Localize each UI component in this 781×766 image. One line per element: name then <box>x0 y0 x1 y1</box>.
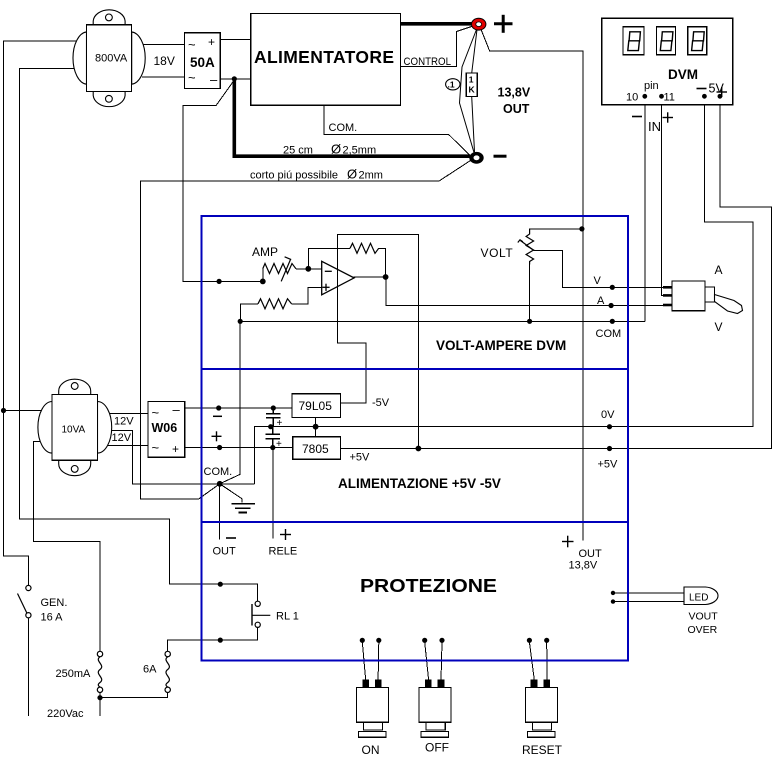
potentiometer VOLT <box>518 229 534 265</box>
wire COM node down to OUT minus terminal <box>219 484 221 540</box>
terminal RELE plus <box>280 529 291 540</box>
wire 50A plus output to ALIMENTATORE <box>220 38 250 40</box>
capacitor C2 <box>266 427 281 448</box>
wire 10VA center tap to COM node <box>103 431 255 484</box>
transformer 10VA <box>38 379 112 475</box>
junction dot relay wire entering box <box>218 582 223 587</box>
plus symbol at output <box>494 15 513 33</box>
wire 10VA primary bottom to fuse 250mA <box>33 441 100 651</box>
junction dot 50A minus output <box>232 76 237 81</box>
fuse 6A <box>165 651 170 692</box>
wire fuse 6A bottom to 220Vac junction <box>100 692 168 697</box>
svg-text:VOLT-AMPERE DVM: VOLT-AMPERE DVM <box>436 338 566 353</box>
svg-text:79L05: 79L05 <box>299 399 333 413</box>
svg-text:+: + <box>208 35 215 49</box>
junction dot mains rail at 10VA primary <box>1 408 6 413</box>
junction dot +5V output <box>607 446 612 451</box>
wire op-amp output down to A line <box>386 277 672 305</box>
svg-text:AMP: AMP <box>252 245 278 259</box>
wire thick plus from ALIMENTATORE to plus post <box>401 22 473 26</box>
svg-text:corto piú possibile: corto piú possibile <box>250 170 338 182</box>
wire COM node riser to measuring circuit <box>220 321 241 484</box>
svg-text:-5V: -5V <box>372 397 390 409</box>
label minus IN plus below DVM <box>632 116 642 118</box>
wire 0V rail bend down to COM node <box>255 96 753 484</box>
svg-text:–: – <box>210 72 218 87</box>
resistor feedback R2 <box>350 243 379 253</box>
svg-text:RESET: RESET <box>522 743 563 757</box>
svg-text:800VA: 800VA <box>95 53 128 65</box>
wire DVM pin11 to switch center tab <box>662 96 672 295</box>
svg-text:OFF: OFF <box>425 741 449 755</box>
wire +5V from 7805 output to DVM 5V+ pin <box>341 96 772 448</box>
svg-text:COM: COM <box>596 328 622 340</box>
wire feedback from minus input over resistor to output <box>308 248 350 268</box>
junction dot cap C2 bottom / RELE takeoff <box>270 445 275 450</box>
binding post minus (black) <box>469 152 483 164</box>
svg-text:PROTEZIONE: PROTEZIONE <box>360 575 497 596</box>
wire VOLT pot top to 13,8V line <box>530 229 582 231</box>
box ALIMENTAZIONE +5V -5V <box>202 369 629 522</box>
wire lower resistor to COM rail <box>240 304 258 322</box>
svg-text:ALIMENTAZIONE +5V -5V: ALIMENTAZIONE +5V -5V <box>338 476 501 491</box>
svg-text:~: ~ <box>188 37 196 52</box>
svg-text:+5V: +5V <box>598 459 619 471</box>
regulator 79L05 <box>292 394 341 418</box>
junction dot op-amp inverting input <box>305 266 311 272</box>
wire 18V secondary upper <box>142 44 184 46</box>
svg-text:IN: IN <box>648 119 661 134</box>
box VOLT-AMPERE DVM <box>202 216 629 369</box>
wire 18V secondary lower <box>142 76 184 78</box>
wire W06 plus rail to 7805 input <box>185 447 293 449</box>
pushbutton RESET <box>526 638 558 737</box>
relay RL1 contact <box>252 601 270 627</box>
svg-text:6A: 6A <box>143 664 157 676</box>
svg-text:+: + <box>277 418 283 429</box>
wire mains L from 800VA primary to GEN switch <box>4 41 77 586</box>
pin dots <box>642 94 647 99</box>
junction dot minus rail test point <box>216 405 221 410</box>
wire GEN switch to 220Vac terminal <box>27 618 29 716</box>
junction dot relay return wire <box>218 638 223 643</box>
svg-text:18V: 18V <box>154 54 175 68</box>
svg-text:0V: 0V <box>601 409 615 421</box>
svg-text:VOUT: VOUT <box>689 611 719 623</box>
svg-text:–: – <box>173 402 181 417</box>
resistor 1K between posts <box>472 30 477 74</box>
svg-text:2,5mm: 2,5mm <box>343 145 377 157</box>
wire COM measurement rail <box>240 320 645 322</box>
label minus 5V plus <box>697 88 707 90</box>
svg-text:11: 11 <box>664 92 675 104</box>
svg-text:GEN.: GEN. <box>41 597 68 609</box>
minus symbol at output <box>494 155 507 158</box>
svg-text:13,8V: 13,8V <box>498 86 531 100</box>
shunt .1 ohm on wire from plus to minus post <box>460 30 477 153</box>
wire shunt sense from 50A minus dot to AMP input <box>183 80 263 281</box>
wire 10VA secondary 12V upper to W06 <box>103 413 148 415</box>
svg-text:10VA: 10VA <box>62 425 86 436</box>
svg-text:DVM: DVM <box>668 67 698 82</box>
rectifier 50A <box>184 33 220 89</box>
svg-text:+: + <box>276 439 282 450</box>
wire RESET button terminals <box>529 642 534 680</box>
label plus polarity mark near W06 <box>212 431 222 441</box>
wire ON button terminals <box>362 642 365 680</box>
wire DVM pin10 to COM rail <box>644 96 646 321</box>
svg-text:13,8V: 13,8V <box>569 560 598 572</box>
junction dot VOLT pot bottom on COM rail <box>527 319 532 324</box>
junction dot +5V rail at op-amp riser <box>416 446 422 452</box>
svg-text:220Vac: 220Vac <box>47 708 84 720</box>
wire LED anode <box>615 592 684 594</box>
DVM module <box>602 18 733 104</box>
svg-text:V: V <box>594 275 602 287</box>
junction dot V line <box>610 285 615 290</box>
transformer 800VA <box>73 10 145 107</box>
seven segment digit 1 <box>623 27 644 55</box>
switch A/V toggle <box>663 281 743 314</box>
wire VOLT pot bottom to COM rail <box>529 265 531 322</box>
wire fuse 250mA bottom to 220Vac terminal <box>99 692 101 716</box>
seven segment digit 3 <box>688 27 707 55</box>
wire op-amp plus input to lower resistor <box>292 287 322 304</box>
pushbutton OFF <box>419 638 451 737</box>
svg-text:LED: LED <box>689 593 708 604</box>
fuse 250mA <box>97 651 102 692</box>
wire 10VA secondary 12V lower to W06 <box>103 444 148 446</box>
junction dot 0V output <box>607 424 612 429</box>
svg-text:12V: 12V <box>114 416 134 428</box>
seven segment digit 2 <box>657 27 676 55</box>
svg-text:25 cm: 25 cm <box>283 145 313 157</box>
svg-text:Ø: Ø <box>331 142 341 157</box>
wire LED cathode <box>615 601 684 603</box>
svg-text:OUT: OUT <box>213 546 237 558</box>
svg-text:RELE: RELE <box>269 546 298 558</box>
capacitor C1 <box>266 408 281 427</box>
svg-text:12V: 12V <box>112 432 132 444</box>
svg-text:250mA: 250mA <box>56 668 92 680</box>
svg-text:10: 10 <box>626 92 638 104</box>
wire W06 minus rail to 79L05 input <box>185 407 292 409</box>
node COM star <box>217 481 223 487</box>
wire mains N from 800VA primary to relay RL1 contact <box>20 69 258 602</box>
wire op-amp minus input node <box>262 269 264 282</box>
svg-text:16 A: 16 A <box>41 612 64 624</box>
svg-text:50A: 50A <box>190 55 215 70</box>
wire OFF button terminals <box>425 642 429 680</box>
terminal OUT minus of ALIMENTAZIONE <box>226 537 236 539</box>
svg-text:A: A <box>715 263 723 277</box>
svg-text:ON: ON <box>362 743 380 757</box>
wire VOLT wiper to V line and switch <box>533 251 672 288</box>
regulator 7805 <box>293 437 341 460</box>
svg-text:.1: .1 <box>448 80 455 90</box>
op-amp U1 <box>322 261 354 295</box>
svg-text:K: K <box>469 85 476 95</box>
svg-text:OVER: OVER <box>688 624 718 636</box>
svg-text:CONTROL: CONTROL <box>404 56 452 68</box>
LED VOUT OVER <box>611 587 718 605</box>
svg-text:+: + <box>172 442 179 456</box>
wire ALIMENTATORE COM. to minus post <box>324 105 469 155</box>
wire 50A minus output to ALIMENTATORE <box>220 78 250 80</box>
junction dot AMP input left <box>217 279 222 284</box>
svg-text:7805: 7805 <box>302 442 329 456</box>
junction dot 0V at regulators <box>313 424 319 430</box>
svg-text:1: 1 <box>469 75 474 85</box>
junction dot op-amp output <box>383 274 389 280</box>
bridge rectifier W06 <box>148 402 185 458</box>
terminal OUT 13,8V plus <box>562 536 574 548</box>
wire regulators common pin <box>315 418 317 437</box>
pushbutton ON <box>357 638 389 737</box>
svg-text:Ø: Ø <box>347 167 357 182</box>
wire thick minus 25cm from minus post to 50A dot <box>234 79 470 156</box>
junction dot plus rail test point <box>217 445 222 450</box>
wire 13,8V sense from plus post down to PROTEZIONE OUT <box>481 28 584 541</box>
junction dot 0V at caps midpoint <box>268 424 273 429</box>
wire op-amp output to node <box>354 276 386 278</box>
junction dot 220Vac <box>97 695 102 700</box>
wire op-amp minus input from pot to triangle <box>296 268 322 270</box>
svg-text:ALIMENTATORE: ALIMENTATORE <box>254 47 394 67</box>
label minus polarity mark <box>213 415 222 417</box>
wire COM node to ground symbol <box>220 484 242 503</box>
svg-text:~: ~ <box>152 405 160 420</box>
junction dot 13,8V line at pot top <box>579 226 584 231</box>
svg-text:RL 1: RL 1 <box>276 611 299 623</box>
svg-text:~: ~ <box>188 70 196 85</box>
svg-text:A: A <box>597 295 605 307</box>
svg-text:W06: W06 <box>152 421 178 435</box>
junction dot cap C1 top <box>271 405 276 410</box>
svg-text:2mm: 2mm <box>359 170 383 182</box>
wire 10VA primary top to mains rail <box>4 410 59 412</box>
box PROTEZIONE <box>202 522 629 661</box>
svg-text:V: V <box>715 320 723 334</box>
svg-text:VOLT: VOLT <box>481 246 514 260</box>
svg-text:~: ~ <box>152 440 160 455</box>
junction dot A line <box>609 303 614 308</box>
svg-text:OUT: OUT <box>503 102 530 116</box>
svg-text:pin: pin <box>644 80 659 92</box>
resistor R3 at non-inverting input <box>258 299 292 309</box>
wire CONTROL from ALIMENTATORE to plus binding post <box>401 26 475 67</box>
svg-text:OUT: OUT <box>579 548 603 560</box>
ground symbol <box>232 504 256 513</box>
potentiometer AMP (rheostat) <box>263 257 296 282</box>
svg-text:COM.: COM. <box>329 122 358 134</box>
switch GEN 16A <box>18 585 32 617</box>
wire RELE plus from +5V rail down <box>272 448 274 539</box>
wire ground corto piu possibile from minus post to COM node <box>141 161 471 500</box>
junction dot COM line <box>610 319 615 324</box>
wire -5V from 79L05 output to op-amp supply loop <box>337 235 418 449</box>
wire relay lower contact to 6A fuse <box>168 627 258 651</box>
box ALIMENTATORE <box>251 14 401 106</box>
junction dot COM rail left <box>238 319 243 324</box>
svg-text:COM.: COM. <box>204 466 233 478</box>
svg-text:+5V: +5V <box>350 452 371 464</box>
junction dot AMP pot bottom <box>260 279 266 285</box>
binding post plus (red) <box>472 18 486 30</box>
